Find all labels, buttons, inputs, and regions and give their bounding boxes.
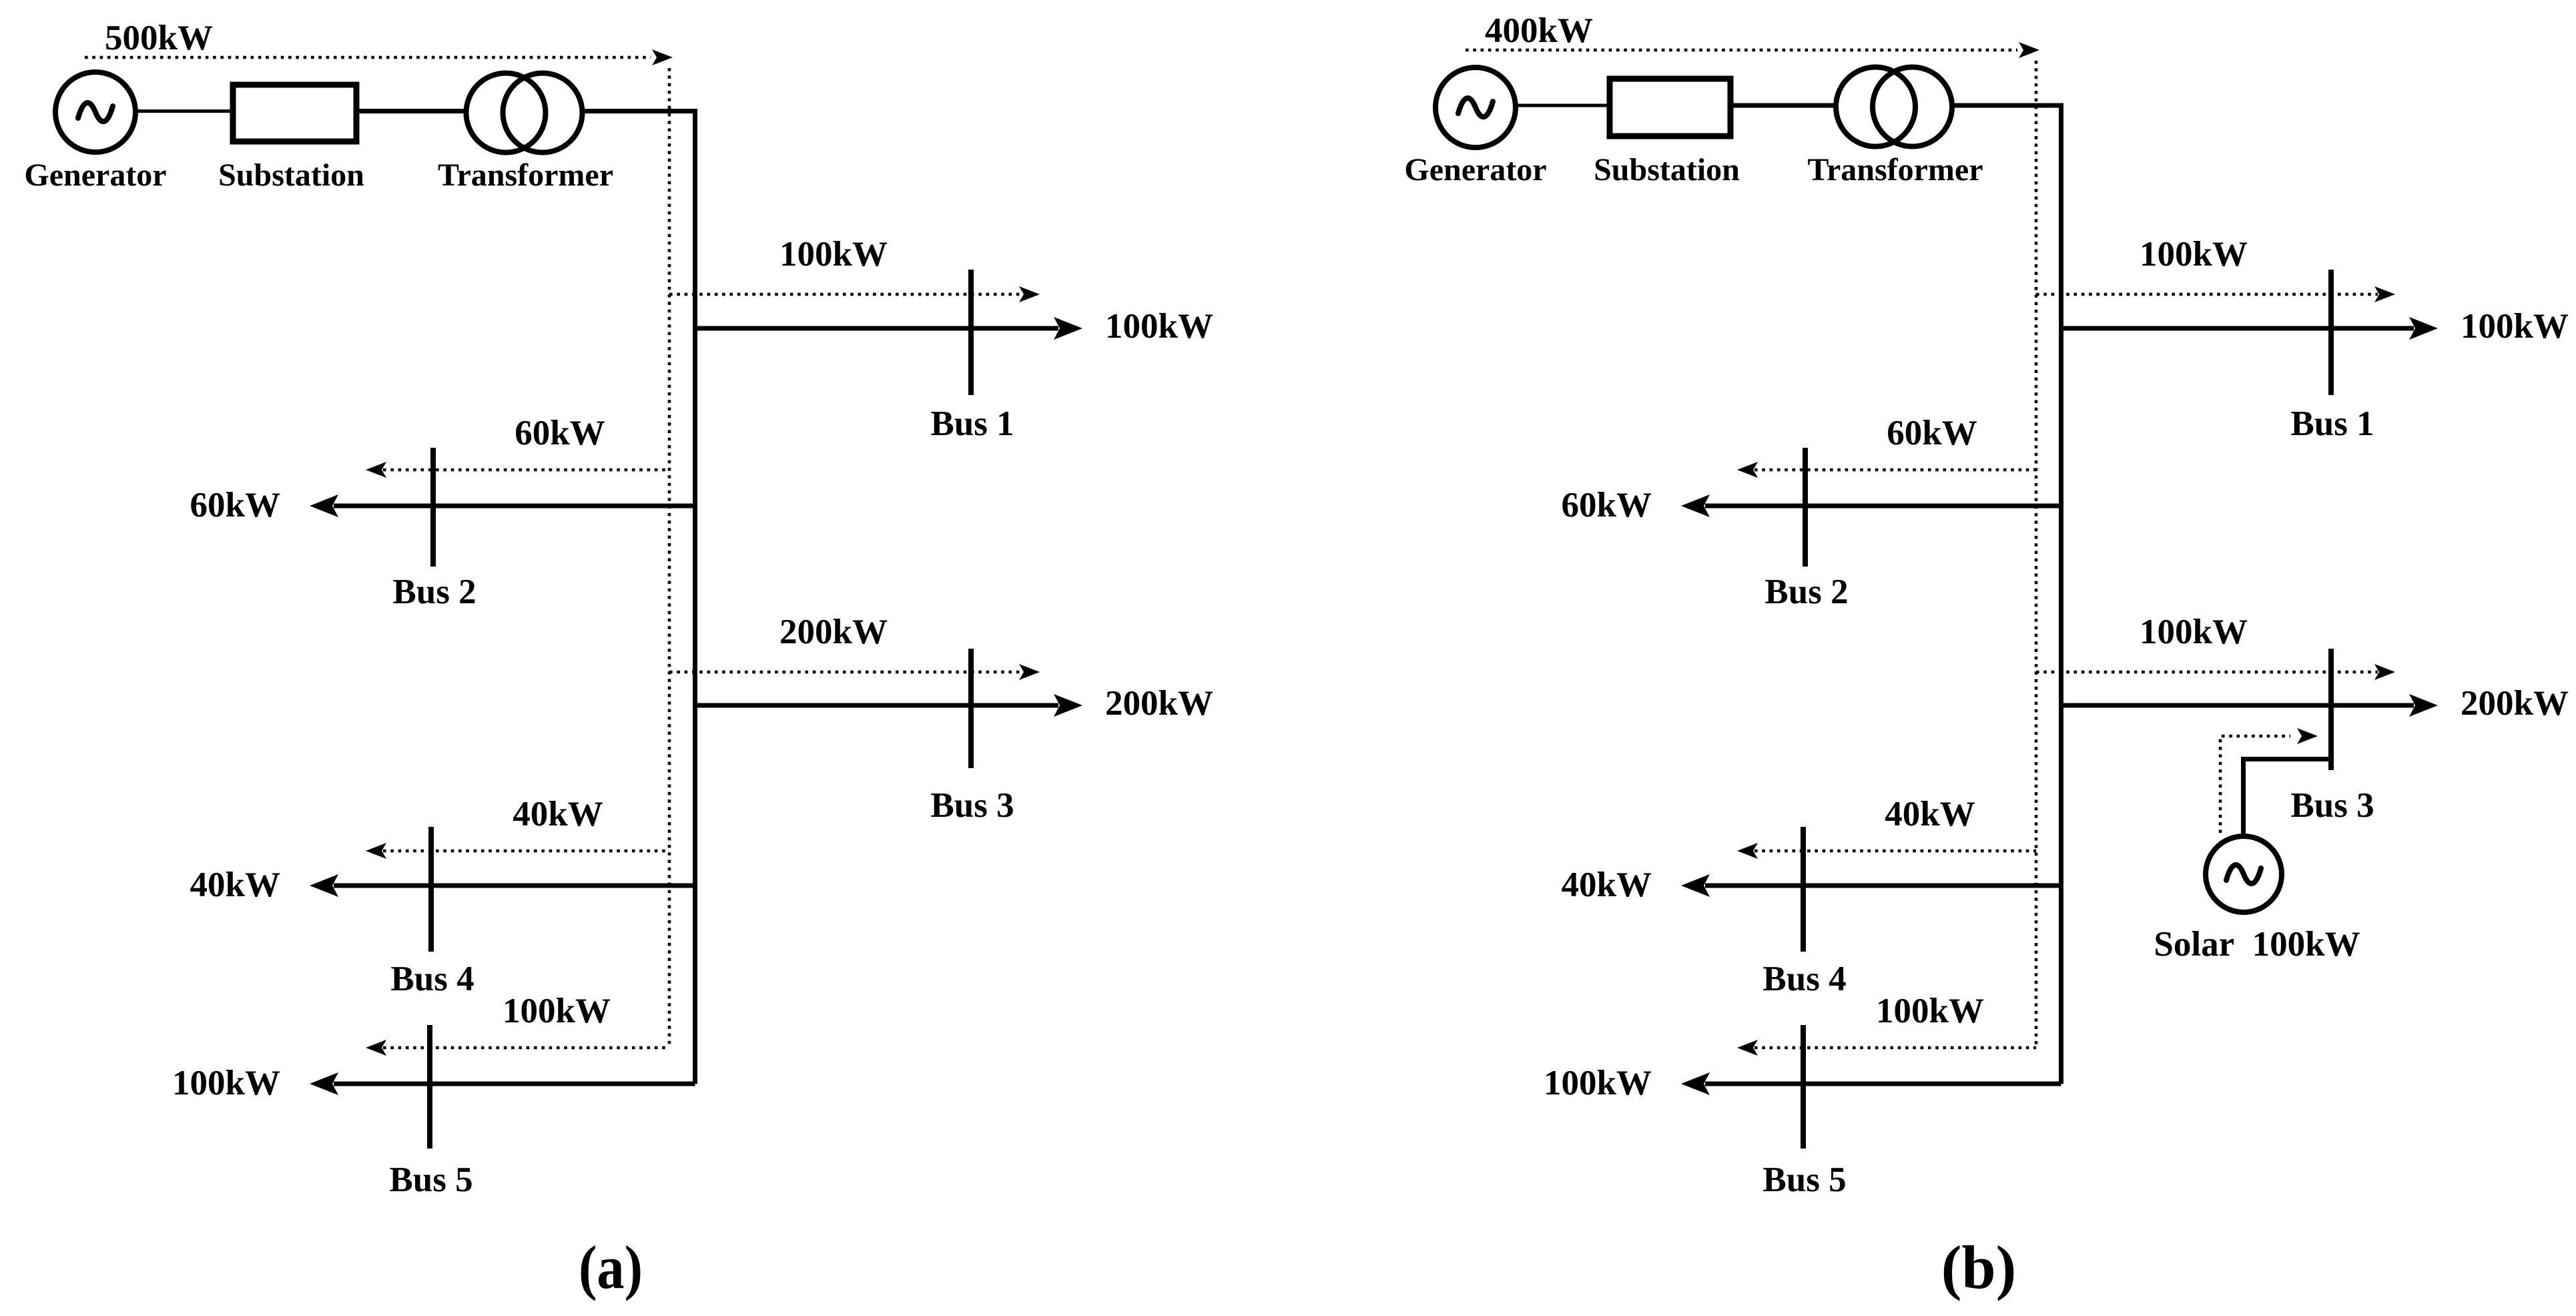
svg-text:40kW: 40kW [190,866,280,904]
svg-text:Substation: Substation [1594,152,1740,188]
solar generator (panel b) [2206,836,2282,912]
bus 2 bar (panel a) [430,448,436,567]
svg-text:100kW: 100kW [779,235,888,274]
feeder line to bus 2 + arrow (panel b) [1681,495,2061,517]
svg-text:Generator: Generator [1404,152,1546,188]
svg-text:500kW: 500kW [105,19,213,57]
svg-text:100kW: 100kW [503,992,611,1030]
dotted power flow to bus 4 + arrow (panel a) [366,843,669,859]
svg-text:Bus 1: Bus 1 [2290,404,2374,443]
wire solar-to-bus3 (panel b) [2244,759,2329,836]
svg-text:100kW: 100kW [1544,1064,1652,1102]
feeder line to bus 1 + arrow (panel a) [695,317,1083,340]
feeder line to bus 4 + arrow (panel b) [1681,874,2061,897]
bus 4 bar (panel a) [428,827,434,952]
svg-text:100kW: 100kW [1105,307,1213,346]
bus 3 bar (panel b) [2328,649,2334,770]
svg-text:Bus 2: Bus 2 [392,573,476,611]
svg-text:Solar 100kW: Solar 100kW [2154,925,2360,964]
dotted power flow to bus 5 + arrow (panel a) [366,1040,669,1056]
generator G (b) [1435,67,1516,147]
feeder line to bus 4 + arrow (panel a) [310,874,695,897]
feeder line to bus 5 + arrow (panel b) [1681,1072,2061,1095]
substation S (b) [1610,79,1730,136]
svg-text:60kW: 60kW [1887,414,1977,452]
svg-text:100kW: 100kW [172,1064,280,1102]
wire feeder trunk (panel b) [1952,105,2061,1084]
dotted power flow to bus 2 + arrow (panel b) [1737,462,2036,478]
bus 3 bar (panel a) [968,649,974,768]
svg-text:200kW: 200kW [779,613,888,651]
wire substation-transformer (panel b) [1730,103,1836,108]
dotted flow trunk (panel a) [668,68,671,1048]
svg-text:60kW: 60kW [1562,486,1652,525]
svg-text:40kW: 40kW [1562,866,1652,904]
bus 2 bar (panel b) [1803,448,1808,567]
svg-text:60kW: 60kW [515,414,605,452]
transformer T (a) [466,73,583,153]
wire feeder trunk (panel a) [583,111,695,1084]
substation S (a) [233,85,356,141]
svg-text:200kW: 200kW [1105,684,1213,723]
wire generator-substation (panel a) [135,109,233,113]
svg-text:200kW: 200kW [2461,684,2569,723]
svg-text:Bus 3: Bus 3 [2290,786,2374,825]
svg-text:Generator: Generator [24,157,166,193]
svg-text:Bus 2: Bus 2 [1764,573,1848,611]
power flow arrow 500kW generator-to-trunk (panel a) [85,49,673,65]
svg-text:Bus 4: Bus 4 [1762,960,1846,998]
dotted flow trunk (panel b) [2035,61,2038,1048]
svg-text:100kW: 100kW [2140,235,2248,274]
svg-text:60kW: 60kW [190,486,280,525]
feeder line to bus 1 + arrow (panel b) [2061,317,2439,340]
dotted power flow to bus 2 + arrow (panel a) [366,462,669,478]
svg-text:100kW: 100kW [2140,613,2248,651]
power flow arrow 400kW generator-to-trunk (panel b) [1466,42,2039,58]
dotted power flow to bus 1 + arrow (panel b) [2036,286,2395,302]
wire generator-substation (panel b) [1516,104,1610,107]
bus 4 bar (panel b) [1801,827,1806,952]
svg-text:(a): (a) [579,1233,643,1301]
dotted power flow to bus 3 + arrow (panel a) [669,664,1040,680]
bus 5 bar (panel a) [427,1025,432,1148]
dotted power flow to bus 1 + arrow (panel a) [669,286,1040,302]
svg-text:(b): (b) [1941,1233,2016,1301]
svg-text:Bus 5: Bus 5 [389,1161,472,1199]
svg-text:Transformer: Transformer [1807,152,1983,188]
svg-text:Bus 4: Bus 4 [390,960,474,998]
feeder line to bus 3 + arrow (panel a) [695,694,1083,717]
feeder line to bus 5 + arrow (panel a) [310,1072,695,1095]
svg-text:40kW: 40kW [513,795,603,834]
bus 1 bar (panel b) [2328,270,2334,395]
transformer T (b) [1836,67,1952,147]
svg-text:40kW: 40kW [1885,795,1975,834]
dotted power flow solar-to-bus3 + arrow (panel b) [2220,728,2318,833]
svg-text:Bus 3: Bus 3 [930,786,1014,825]
bus 1 bar (panel a) [968,270,974,395]
svg-text:100kW: 100kW [2461,307,2569,346]
svg-text:Transformer: Transformer [438,157,613,193]
svg-text:Bus 5: Bus 5 [1762,1161,1846,1199]
dotted power flow to bus 5 + arrow (panel b) [1737,1040,2036,1056]
dotted power flow to bus 3 + arrow (panel b) [2036,664,2395,680]
wire substation-transformer (panel a) [356,109,466,113]
feeder line to bus 3 + arrow (panel b) [2061,694,2439,717]
feeder line to bus 2 + arrow (panel a) [310,495,695,517]
generator G (a) [55,72,135,152]
dotted power flow to bus 4 + arrow (panel b) [1737,843,2036,859]
svg-text:100kW: 100kW [1876,992,1984,1030]
svg-text:Bus 1: Bus 1 [930,404,1014,443]
svg-text:400kW: 400kW [1485,11,1593,50]
bus 5 bar (panel b) [1801,1025,1806,1148]
svg-text:Substation: Substation [218,157,364,193]
